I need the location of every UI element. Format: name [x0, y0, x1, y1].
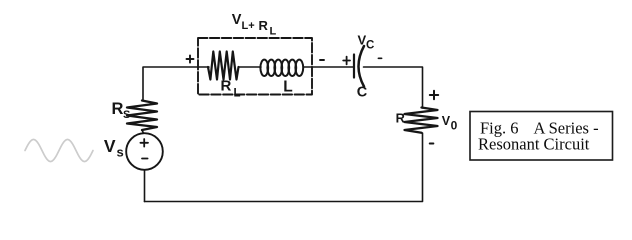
dashed box around RL and L: [198, 38, 312, 95]
plus node left of dashed box: [187, 55, 194, 62]
minus node right of dashed box: [320, 59, 324, 61]
capacitor C left plate: [353, 55, 355, 78]
inductor L coil: [260, 60, 303, 76]
svg-text:R: R: [259, 18, 269, 33]
wire L to capacitor: [303, 66, 353, 68]
label V0: [442, 114, 458, 133]
svg-text:L: L: [270, 26, 277, 38]
svg-text:V: V: [232, 12, 242, 28]
svg-text:R: R: [112, 100, 124, 118]
resistor R: [405, 108, 438, 133]
plus inside Vs: [140, 139, 148, 147]
svg-text:s: s: [117, 145, 124, 160]
capacitor C curved plate: [359, 46, 365, 87]
svg-text:V: V: [104, 136, 116, 156]
wire top-left horizontal and left vertical: [143, 67, 209, 100]
wire between RL and L: [239, 66, 262, 68]
svg-text:0: 0: [451, 119, 458, 133]
wire below Vs: [144, 170, 146, 202]
label VC: [358, 33, 375, 52]
caption box: [470, 112, 613, 161]
svg-text:L: L: [234, 88, 241, 100]
sine wave decorative source waveform: [25, 140, 93, 162]
source Vs circle: [126, 133, 163, 170]
svg-text:V: V: [442, 114, 451, 128]
minus node right of capacitor: [378, 57, 381, 59]
svg-text:C: C: [357, 85, 368, 101]
svg-text:L+: L+: [242, 20, 255, 32]
wire Rs to source: [142, 130, 144, 133]
svg-text:C: C: [366, 40, 374, 52]
svg-text:L: L: [283, 79, 292, 96]
plus node above resistor R: [430, 91, 438, 99]
label RL: [221, 78, 241, 100]
wire bottom and right vertical lower: [145, 133, 423, 202]
resistor RL zigzag: [208, 52, 239, 80]
plus node left of capacitor: [343, 57, 350, 65]
label Vs: [104, 136, 124, 160]
resistor Rs: [127, 101, 157, 131]
label V_L+RL: [232, 12, 277, 38]
caption text: [478, 119, 599, 154]
svg-text:S: S: [123, 109, 130, 121]
minus node below resistor R: [430, 143, 434, 145]
wire capacitor to right corner and down: [364, 67, 423, 108]
minus inside Vs: [142, 158, 148, 160]
svg-text:Resonant Circuit: Resonant Circuit: [478, 135, 590, 154]
svg-text:R: R: [221, 78, 232, 95]
svg-text:R: R: [396, 111, 405, 126]
label Rs: [112, 100, 131, 121]
